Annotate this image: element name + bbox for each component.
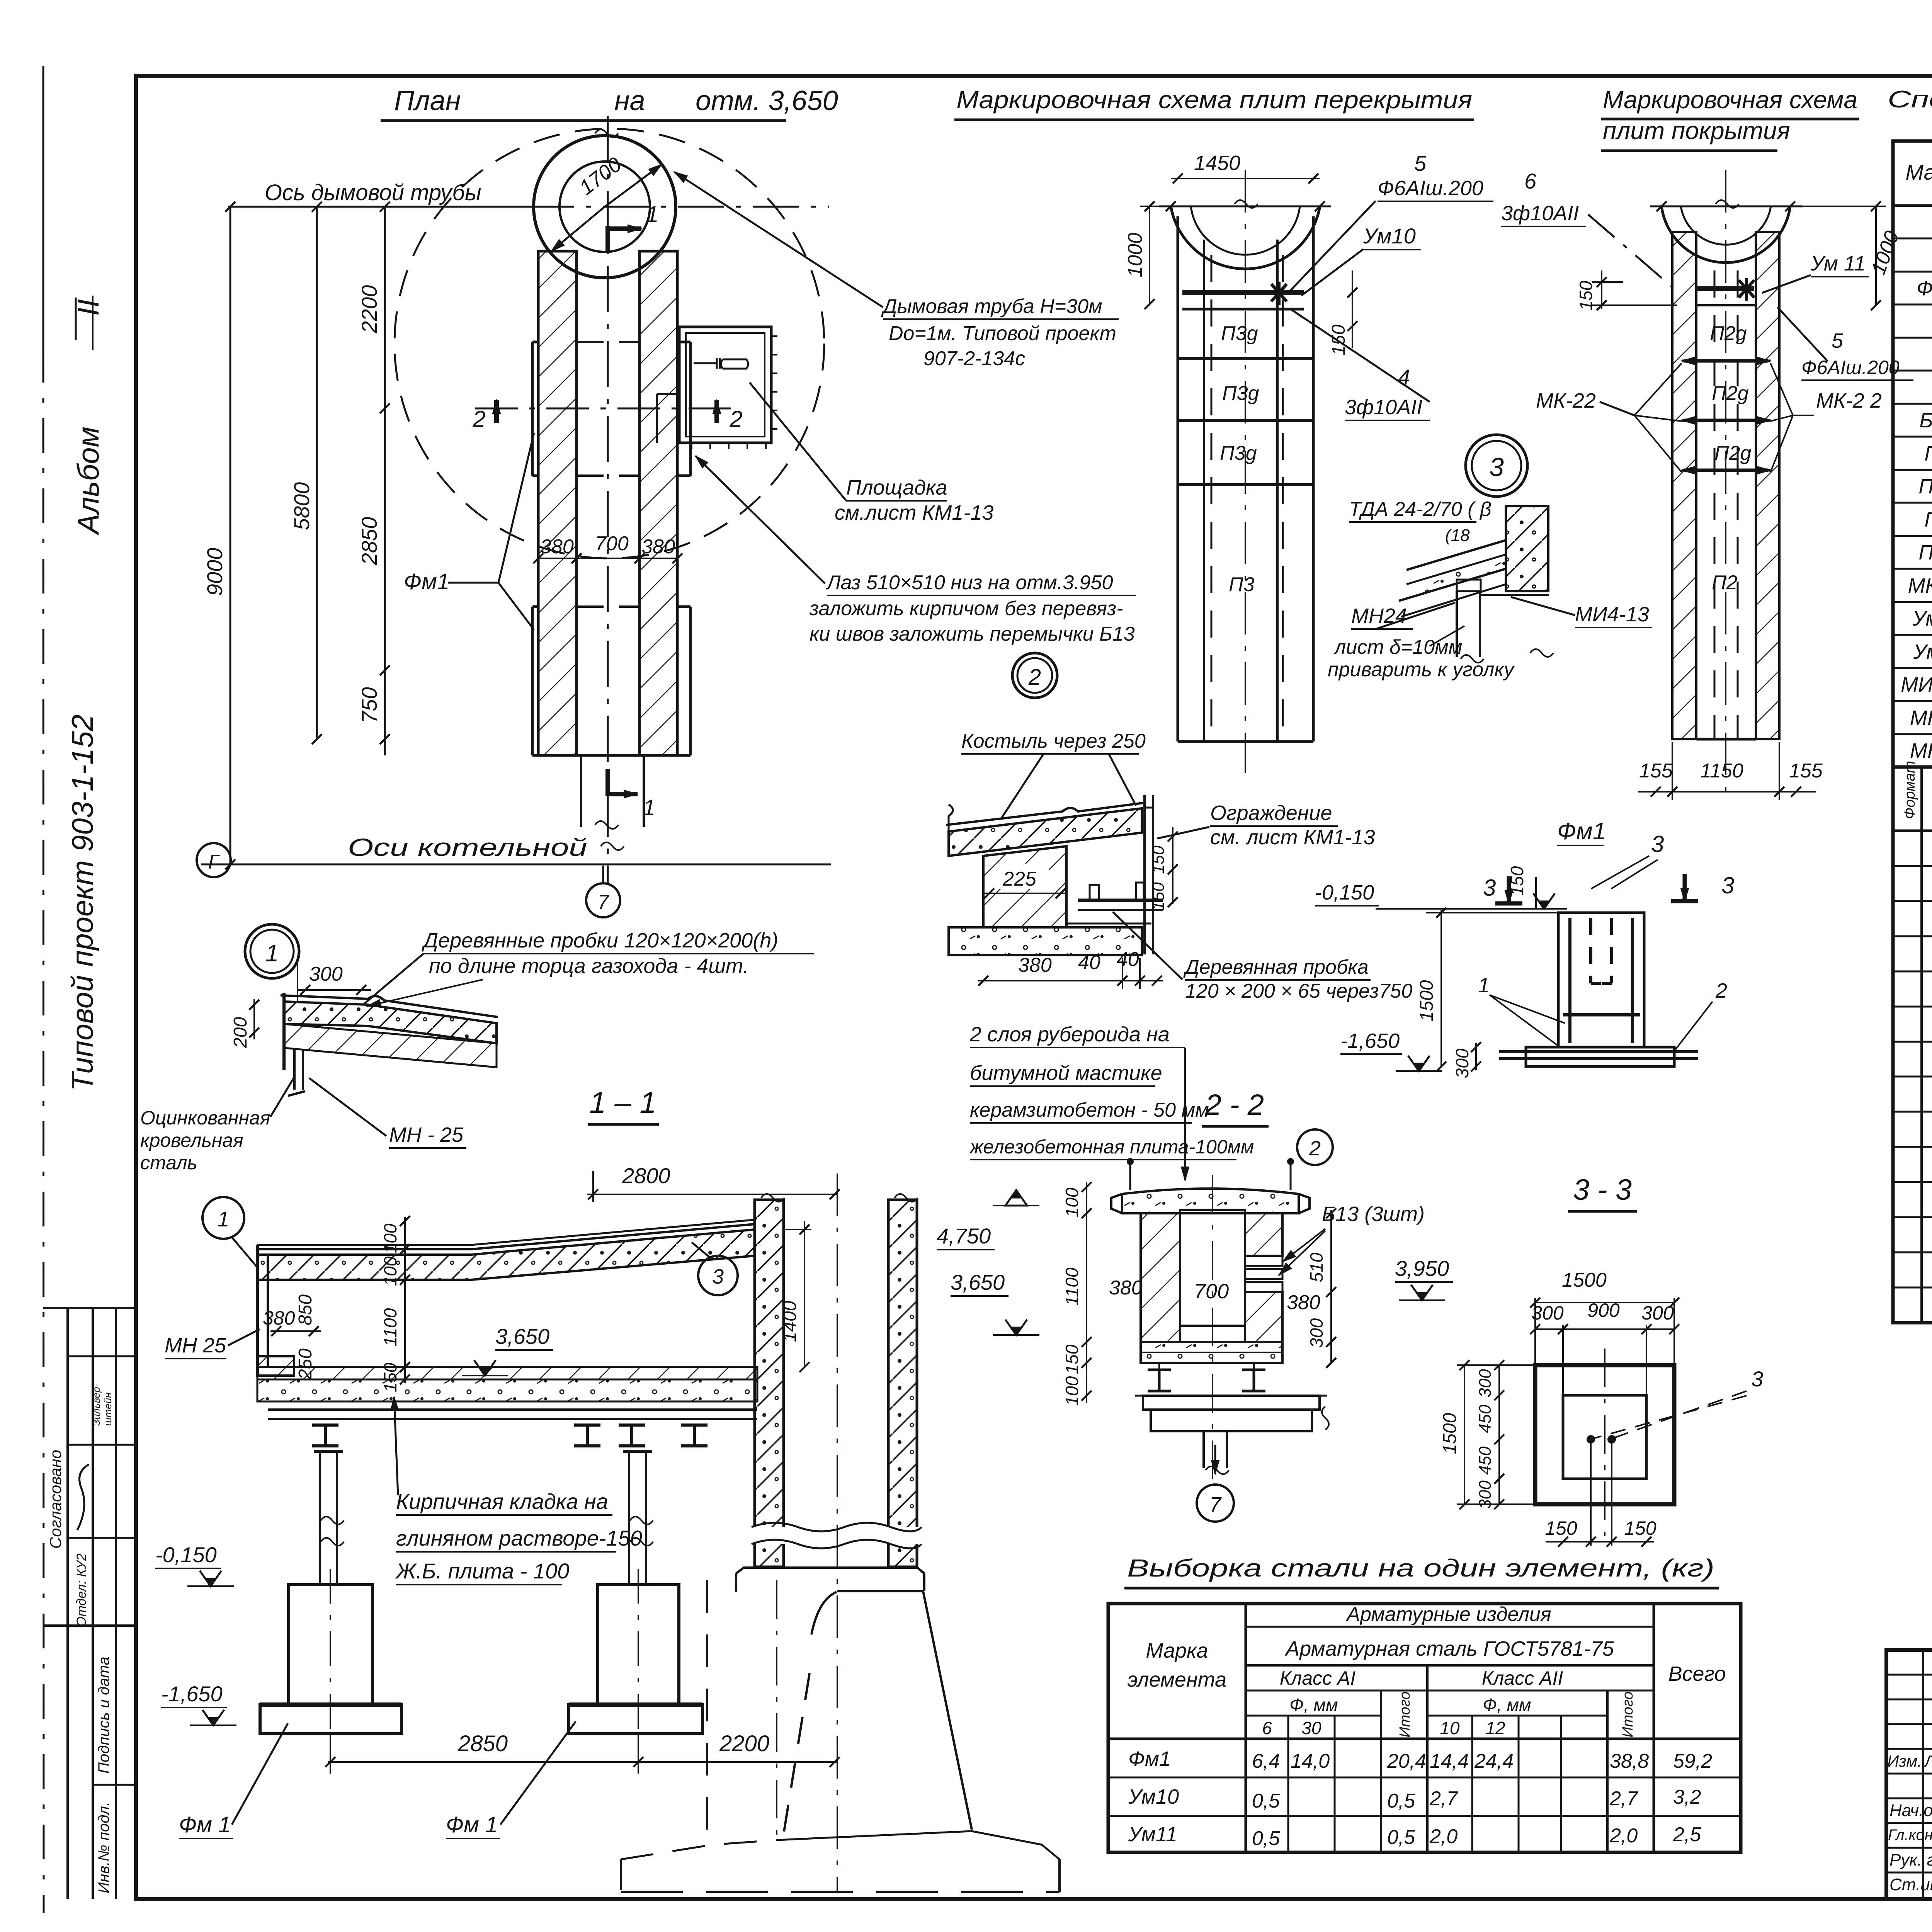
scheme2 centerline — [1725, 170, 1726, 796]
Фм1 dim 1500 — [1440, 910, 1442, 1066]
svg-text:Ум10: Ум10 — [1128, 1785, 1179, 1808]
svg-text:1500: 1500 — [1440, 1413, 1460, 1454]
svg-text:П2: П2 — [1712, 571, 1738, 594]
svg-text:глиняном растворе-150: глиняном растворе-150 — [396, 1526, 642, 1550]
detail2 dim 225 — [999, 864, 1049, 889]
2-2 I-beams below — [1148, 1369, 1171, 1371]
svg-text:2,0: 2,0 — [1609, 1825, 1638, 1847]
leader to 2-2 top — [1184, 1048, 1186, 1175]
svg-text:П2g: П2g — [1714, 442, 1752, 464]
svg-text:Г: Г — [208, 851, 221, 873]
1-1 I-beam stubs — [312, 1423, 338, 1427]
svg-text:Ж.Б. плита - 100: Ж.Б. плита - 100 — [395, 1559, 569, 1583]
svg-text:6,4: 6,4 — [1252, 1750, 1280, 1772]
scheme2 monolithic bar Ум11 — [1696, 286, 1754, 291]
1-1 beams under slab — [268, 1408, 757, 1411]
Фм1 pedestal — [1558, 913, 1644, 1047]
svg-text:2,7: 2,7 — [1429, 1787, 1458, 1810]
axis circle 7 (2-2) — [1197, 1485, 1234, 1522]
detail1 dim 200 — [253, 999, 255, 1039]
1-1 chimney wall B (section) — [888, 1200, 917, 1567]
svg-text:150: 150 — [1149, 882, 1168, 911]
svg-text:МК-2 2: МК-2 2 — [1816, 389, 1882, 412]
svg-text:П2g: П2g — [1918, 541, 1932, 564]
svg-text:Фм1: Фм1 — [1557, 818, 1606, 845]
svg-text:120 × 200 × 65 через750: 120 × 200 × 65 через750 — [1185, 980, 1412, 1002]
svg-text:лист δ=10мм: лист δ=10мм — [1333, 636, 1462, 658]
svg-text:заложить кирпичом без перевяз-: заложить кирпичом без перевяз- — [809, 597, 1123, 620]
scheme1 column walls — [1177, 216, 1179, 742]
plan dim 5800 — [316, 207, 318, 739]
svg-text:Фм1: Фм1 — [404, 569, 449, 594]
svg-text:3,950: 3,950 — [1395, 1256, 1449, 1281]
svg-text:1 – 1: 1 – 1 — [589, 1085, 656, 1119]
detail2: steel angle w/ bolts — [1078, 899, 1163, 902]
svg-text:3: 3 — [1489, 452, 1504, 482]
svg-text:Фм1: Фм1 — [1128, 1747, 1171, 1770]
svg-text:2800: 2800 — [622, 1163, 670, 1188]
svg-text:П3g: П3g — [1220, 442, 1257, 464]
scheme1 monolithic bar Ум10 — [1182, 290, 1304, 295]
node circle 2 callout — [1012, 653, 1057, 698]
node3 detail: column below — [1456, 591, 1458, 657]
svg-text:Ф6АIш.200: Ф6АIш.200 — [1801, 357, 1900, 378]
svg-text:ТДА 24-2/70 ( β: ТДА 24-2/70 ( β — [1349, 498, 1492, 520]
svg-text:1: 1 — [265, 940, 279, 967]
svg-text:Ф, мм: Ф, мм — [1289, 1695, 1338, 1715]
svg-text:приварить к уголку: приварить к уголку — [1328, 658, 1515, 681]
axis circle 7 (plan) — [586, 883, 620, 917]
1-1 duct bottom slab — [257, 1367, 757, 1379]
svg-text:Ум10: Ум10 — [1912, 607, 1932, 630]
2-2 base plates — [1143, 1396, 1320, 1410]
detail1: roof slab sloped — [284, 1002, 497, 1043]
svg-text:битумной мастике: битумной мастике — [970, 1061, 1162, 1085]
svg-text:Всего: Всего — [1668, 1662, 1726, 1685]
svg-text:1: 1 — [643, 795, 655, 820]
2-2 stub below — [1202, 1431, 1205, 1468]
detail2: bottom slab — [949, 927, 1142, 955]
svg-text:2: 2 — [1715, 979, 1727, 1002]
svg-text:Инв.№ подл.: Инв.№ подл. — [95, 1802, 112, 1893]
svg-text:850: 850 — [295, 1294, 316, 1325]
svg-text:100: 100 — [380, 1223, 400, 1253]
svg-text:Зона: Зона — [1930, 782, 1932, 815]
svg-text:0,5: 0,5 — [1387, 1826, 1415, 1849]
svg-text:3: 3 — [1651, 831, 1664, 857]
svg-text:40: 40 — [1078, 951, 1100, 974]
svg-text:250: 250 — [295, 1349, 316, 1380]
svg-text:Деревянные пробки 120×120×200(: Деревянные пробки 120×120×200(h) — [422, 929, 778, 952]
plan vertical centerline — [607, 116, 609, 883]
svg-text:2: 2 — [472, 406, 485, 432]
svg-text:ки швов заложить перемычки Б13: ки швов заложить перемычки Б13 — [810, 623, 1135, 645]
svg-text:1500: 1500 — [1417, 980, 1437, 1021]
vyborka table frame — [1108, 1604, 1741, 1852]
1-1 dim 1400 — [804, 1221, 805, 1367]
svg-text:Типовой проект 903-1-152: Типовой проект 903-1-152 — [65, 714, 99, 1091]
svg-text:П3g: П3g — [1918, 475, 1932, 498]
svg-text:3: 3 — [1751, 1367, 1763, 1391]
svg-text:Dо=1м. Типовой проект: Dо=1м. Типовой проект — [889, 322, 1116, 345]
3-3 centerlines — [1604, 1349, 1605, 1542]
svg-text:Кирпичная кладка на: Кирпичная кладка на — [396, 1489, 608, 1514]
svg-text:Деревянная пробка: Деревянная пробка — [1183, 956, 1369, 978]
svg-text:МИ4-13: МИ4-13 — [1901, 673, 1932, 696]
svg-text:30: 30 — [1301, 1718, 1321, 1738]
svg-text:510: 510 — [1306, 1252, 1327, 1282]
svg-text:5800: 5800 — [289, 482, 314, 531]
svg-text:П3: П3 — [1229, 573, 1255, 596]
svg-text:300: 300 — [1476, 1369, 1495, 1398]
title block left sign table — [1922, 1650, 1924, 1899]
scheme1 dim 1000 — [1149, 206, 1150, 304]
spec rows part1 — [1893, 238, 1932, 240]
svg-text:Оси котельной: Оси котельной — [348, 833, 587, 861]
svg-text:МН24: МН24 — [1351, 604, 1407, 628]
title block frame — [1886, 1650, 1932, 1899]
detail1: left closure and МН-25 strip — [282, 993, 286, 1070]
svg-text:-1,650: -1,650 — [1340, 1029, 1400, 1053]
1-1 footing left — [260, 1705, 401, 1734]
svg-text:Фм 1: Фм 1 — [446, 1812, 498, 1837]
svg-text:0,5: 0,5 — [1252, 1790, 1280, 1812]
svg-text:3,2: 3,2 — [1673, 1786, 1701, 1808]
svg-text:12: 12 — [1485, 1718, 1505, 1738]
svg-text:2,0: 2,0 — [1429, 1825, 1458, 1848]
plan: flue below walls — [580, 755, 582, 827]
spec second header Формат Зона Поз — [1893, 830, 1932, 832]
3-3 inner square — [1563, 1395, 1646, 1479]
svg-text:Итого: Итого — [1397, 1692, 1413, 1738]
svg-text:38,8: 38,8 — [1610, 1750, 1649, 1772]
svg-text:7: 7 — [598, 891, 610, 913]
svg-text:Ум10: Ум10 — [1363, 224, 1416, 248]
1-1 steel post right — [628, 1451, 630, 1585]
svg-text:450: 450 — [1476, 1446, 1495, 1475]
1-1 chimney wall A (section) — [755, 1200, 784, 1567]
svg-text:П3g: П3g — [1221, 322, 1258, 345]
node circle 3 callout — [1466, 435, 1527, 497]
svg-text:3,650: 3,650 — [495, 1324, 549, 1349]
svg-text:100: 100 — [1062, 1376, 1082, 1406]
svg-text:300: 300 — [1531, 1302, 1564, 1324]
svg-text:плит покрытия: плит покрытия — [1603, 117, 1790, 145]
svg-text:Гл.констр: Гл.констр — [1888, 1827, 1932, 1844]
svg-text:Фм1: Фм1 — [1917, 277, 1932, 300]
svg-text:Ум 11: Ум 11 — [1810, 252, 1866, 275]
3-3 dims 300 450 450 300 left — [1498, 1365, 1500, 1504]
sheet edge left — [43, 66, 44, 348]
svg-text:Ум11: Ум11 — [1128, 1823, 1177, 1846]
svg-text:150: 150 — [380, 1362, 400, 1392]
svg-text:0,5: 0,5 — [1387, 1790, 1415, 1812]
svg-text:150: 150 — [1624, 1517, 1656, 1539]
svg-text:2200: 2200 — [357, 285, 381, 334]
svg-text:59,2: 59,2 — [1673, 1750, 1712, 1772]
svg-text:Площадка: Площадка — [846, 476, 947, 499]
svg-text:Оцинкованная: Оцинкованная — [140, 1107, 270, 1129]
svg-text:П3: П3 — [1924, 442, 1932, 465]
3-3 outer square — [1535, 1365, 1674, 1504]
scheme2 bottom dims 155 1150 155 — [1638, 791, 1816, 793]
svg-text:24,4: 24,4 — [1474, 1750, 1514, 1772]
svg-text:2850: 2850 — [457, 1731, 508, 1756]
svg-text:150: 150 — [1507, 866, 1527, 896]
svg-text:200: 200 — [230, 1017, 251, 1048]
detail2: wall block below — [983, 846, 1066, 927]
spec rows part2 — [1893, 865, 1932, 867]
svg-text:МН24: МН24 — [1910, 706, 1932, 730]
svg-text:сталь: сталь — [140, 1152, 197, 1173]
svg-text:Изм.: Изм. — [1887, 1752, 1922, 1770]
svg-text:Б13: Б13 — [1919, 409, 1932, 432]
Фм1 base rebars — [1499, 1050, 1698, 1053]
svg-text:7: 7 — [1209, 1493, 1222, 1516]
svg-text:1100: 1100 — [380, 1308, 400, 1346]
svg-text:155: 155 — [1789, 760, 1823, 782]
node circle 2 (section ref) — [1297, 1129, 1333, 1165]
3-3 center bolts — [1587, 1436, 1594, 1443]
svg-text:2: 2 — [1309, 1137, 1321, 1160]
svg-text:Лаз 510×510 низ на отм.3.950: Лаз 510×510 низ на отм.3.950 — [826, 571, 1113, 594]
plan: chimney inner circle — [560, 162, 650, 252]
1-1 chimney centerline — [837, 1173, 838, 1893]
svg-text:Подпись и дата: Подпись и дата — [95, 1656, 112, 1774]
svg-text:300: 300 — [1641, 1302, 1674, 1324]
scheme2 dim 150 — [1601, 270, 1602, 309]
svg-text:3ф10АII: 3ф10АII — [1345, 396, 1422, 419]
svg-text:20,4: 20,4 — [1387, 1750, 1426, 1772]
scheme2 top arc — [1662, 206, 1790, 263]
2-2 left wall hatched — [1141, 1213, 1180, 1342]
node circle 3 (section ref) — [698, 1256, 738, 1295]
scheme2 dim 1000 — [1875, 206, 1877, 305]
svg-text:2200: 2200 — [719, 1731, 769, 1756]
2-2 bottom slab — [1141, 1342, 1282, 1363]
svg-text:П3g: П3g — [1222, 382, 1259, 405]
svg-text:5: 5 — [1414, 151, 1427, 175]
svg-text:Рук. гр.: Рук. гр. — [1889, 1850, 1932, 1869]
svg-text:Класс АI: Класс АI — [1280, 1667, 1356, 1689]
1-1 steel post left — [319, 1451, 321, 1585]
svg-text:-1,650: -1,650 — [161, 1682, 223, 1706]
svg-text:3,650: 3,650 — [951, 1270, 1005, 1294]
svg-text:1: 1 — [1478, 974, 1490, 997]
svg-text:100: 100 — [1062, 1187, 1082, 1217]
scheme1 top arc (chimney) — [1171, 206, 1320, 269]
svg-text:керамзитобетон - 50 мм: керамзитобетон - 50 мм — [970, 1099, 1209, 1121]
svg-text:-0,150: -0,150 — [155, 1543, 217, 1567]
scheme2 column walls (hatched) — [1672, 232, 1696, 739]
svg-text:450: 450 — [1476, 1405, 1495, 1433]
svg-text:150: 150 — [1149, 845, 1168, 874]
svg-text:2,5: 2,5 — [1673, 1823, 1701, 1846]
1-1 pedestal centerlines — [330, 1569, 331, 1750]
node3 detail sketch: sloped roof layers — [1406, 540, 1506, 570]
1-1 duct top slab — [257, 1224, 755, 1249]
svg-text:150: 150 — [1328, 325, 1349, 355]
svg-text:Б13 (3шт): Б13 (3шт) — [1322, 1202, 1425, 1226]
detail1: lower slab — [284, 1024, 497, 1067]
svg-text:5: 5 — [1832, 329, 1844, 352]
1-1 pedestal left — [289, 1585, 372, 1705]
svg-text:Выборка стали на один элемен: Выборка стали на один элемент, (кг) — [1127, 1554, 1714, 1582]
1-1 dims stack 100 100 1100 150 — [404, 1217, 406, 1383]
1-1 pedestal right — [598, 1585, 679, 1705]
2-2 anchor pins — [1129, 1164, 1131, 1190]
svg-text:6: 6 — [1262, 1718, 1272, 1738]
svg-text:900: 900 — [1587, 1299, 1620, 1321]
svg-text:Альбом: Альбом — [71, 427, 105, 536]
scheme2 МК-22 connector rows — [1684, 359, 1768, 363]
svg-text:2: 2 — [729, 406, 742, 432]
svg-text:МН 25: МН 25 — [165, 1334, 226, 1357]
svg-text:380: 380 — [1109, 1277, 1143, 1299]
plan dims 2200 2850 750 — [384, 207, 386, 755]
svg-text:1400: 1400 — [780, 1301, 800, 1342]
Фм1 rebar horizontal — [1563, 1013, 1640, 1017]
plan: platform square — [679, 327, 771, 443]
svg-text:Отдел: КУ2: Отдел: КУ2 — [74, 1553, 89, 1627]
svg-text:225: 225 — [1002, 868, 1037, 890]
svg-text:300: 300 — [1452, 1048, 1472, 1078]
svg-text:МН - 25: МН - 25 — [389, 1123, 464, 1146]
node3 detail sketch: wall — [1506, 506, 1548, 591]
plan: diameter 1700 arrow — [551, 207, 605, 251]
svg-text:3 - 3: 3 - 3 — [1573, 1173, 1632, 1206]
svg-text:2: 2 — [1028, 665, 1041, 690]
svg-text:П2g: П2g — [1712, 382, 1749, 405]
2-2 centerline — [1212, 1175, 1213, 1484]
spec table frame — [1893, 141, 1932, 1323]
plan: foundation dashed circle — [395, 129, 824, 558]
svg-text:1000: 1000 — [1124, 233, 1146, 277]
svg-text:Согласовано: Согласовано — [46, 1450, 65, 1549]
svg-text:Марка: Марка — [1905, 160, 1932, 184]
plan: chimney flue right wall (hatched) — [639, 251, 677, 755]
detail2: sloped roof slab — [949, 808, 1142, 856]
plan: upper pilaster block — [531, 342, 534, 476]
svg-text:отм. 3,650: отм. 3,650 — [696, 85, 838, 116]
3-3 dim 1500 left — [1464, 1365, 1465, 1504]
svg-text:14,4: 14,4 — [1430, 1750, 1469, 1772]
svg-text:2850: 2850 — [357, 517, 381, 566]
svg-text:см.лист КМ1-13: см.лист КМ1-13 — [835, 501, 993, 524]
svg-text:Фм 1: Фм 1 — [179, 1812, 231, 1837]
svg-text:1450: 1450 — [1194, 151, 1240, 175]
detail2 dims 150 150 vertical — [1172, 827, 1173, 904]
svg-text:Костыль через 250: Костыль через 250 — [961, 730, 1146, 752]
svg-text:Лист: Лист — [1923, 1752, 1932, 1770]
svg-text:380: 380 — [263, 1307, 295, 1329]
svg-text:380: 380 — [641, 536, 675, 558]
node3 detail: angle support — [1457, 580, 1481, 591]
svg-text:МН25: МН25 — [1910, 739, 1932, 762]
Фм1 base — [1526, 1047, 1674, 1066]
2-2 dims left 100 1100 150 100 — [1086, 1182, 1087, 1403]
svg-text:1500: 1500 — [1562, 1269, 1607, 1291]
svg-text:907-2-134с: 907-2-134с — [923, 347, 1025, 370]
node circle 1 callout — [245, 924, 299, 978]
1-1 duct left end — [256, 1245, 259, 1376]
svg-text:Ф, мм: Ф, мм — [1483, 1695, 1531, 1715]
svg-text:-0,150: -0,150 — [1315, 881, 1374, 904]
svg-text:штейн: штейн — [102, 1393, 114, 1426]
svg-text:(18: (18 — [1445, 526, 1470, 545]
svg-text:100: 100 — [380, 1256, 400, 1286]
axis circle Г — [197, 843, 231, 877]
svg-text:9000: 9000 — [202, 548, 227, 596]
svg-text:380: 380 — [1018, 954, 1052, 976]
svg-text:Ограждение: Ограждение — [1210, 801, 1332, 825]
svg-text:Арматурная сталь ГОСТ5781-75: Арматурная сталь ГОСТ5781-75 — [1284, 1637, 1614, 1660]
node circle 1 (section ref) — [202, 1197, 244, 1239]
svg-text:Нач.отд.: Нач.отд. — [1889, 1801, 1932, 1820]
plan: chimney flue left wall (hatched) — [538, 251, 577, 755]
plan dims 380 700 380 — [538, 558, 677, 559]
svg-text:700: 700 — [1194, 1280, 1229, 1303]
svg-text:Класс АII: Класс АII — [1482, 1667, 1563, 1689]
svg-text:2 слоя рубероида на: 2 слоя рубероида на — [969, 1023, 1170, 1046]
svg-text:Ф6АIш.200: Ф6АIш.200 — [1378, 177, 1483, 200]
svg-text:П2g: П2g — [1710, 322, 1747, 345]
plan: section cut 2-2 line — [475, 408, 742, 410]
svg-text:МК-22: МК-22 — [1908, 574, 1932, 597]
sidebar signature — [77, 1464, 89, 1530]
svg-text:МК-22: МК-22 — [1536, 389, 1596, 412]
svg-text:Зильвер-: Зильвер- — [90, 1383, 102, 1426]
2-2 top plate — [1122, 1189, 1299, 1213]
svg-text:Спецификация элементов к: Спецификация элементов к маркировочным с… — [1888, 86, 1932, 113]
svg-text:Ум11: Ум11 — [1913, 640, 1932, 663]
svg-text:155: 155 — [1639, 760, 1673, 782]
spec header — [1893, 204, 1932, 207]
svg-text:1100: 1100 — [1062, 1267, 1082, 1306]
1-1 wall break band — [752, 1527, 920, 1544]
plan: flue interior dashed lines — [577, 341, 639, 343]
svg-text:кровельная: кровельная — [140, 1129, 243, 1151]
plan axis: Ось дымовой трубы horizontal centerline — [228, 206, 829, 208]
svg-text:0,5: 0,5 — [1252, 1827, 1280, 1850]
plan: section mark 1 bottom — [605, 769, 610, 796]
2-2 right wall upper + lintels Б13 — [1245, 1213, 1282, 1256]
Фм1 rebar verticals — [1568, 918, 1571, 1043]
svg-text:300: 300 — [309, 963, 343, 985]
svg-text:железобетонная плита-100мм: железобетонная плита-100мм — [969, 1136, 1254, 1158]
1-1 footing right — [569, 1705, 702, 1734]
svg-text:3ф10АII: 3ф10АII — [1501, 202, 1579, 225]
detail2: guard post — [1143, 795, 1146, 954]
svg-text:1: 1 — [646, 201, 658, 227]
svg-text:1150: 1150 — [1700, 760, 1743, 782]
svg-text:см. лист КМ1-13: см. лист КМ1-13 — [1210, 826, 1375, 849]
svg-text:на: на — [614, 85, 645, 116]
svg-text:элемента: элемента — [1128, 1668, 1226, 1691]
svg-text:План: План — [394, 85, 461, 116]
svg-text:6: 6 — [1524, 169, 1537, 193]
svg-text:3: 3 — [1483, 875, 1496, 901]
svg-text:380: 380 — [1287, 1291, 1320, 1314]
svg-text:Арматурные изделия: Арматурные изделия — [1345, 1603, 1551, 1626]
svg-text:10: 10 — [1440, 1718, 1460, 1738]
svg-text:300: 300 — [1306, 1318, 1327, 1348]
svg-text:3: 3 — [712, 1265, 724, 1288]
svg-text:Формат: Формат — [1902, 761, 1918, 819]
svg-text:Ст.инж.: Ст.инж. — [1889, 1875, 1932, 1894]
svg-text:750: 750 — [357, 687, 381, 723]
svg-text:МИ4-13: МИ4-13 — [1575, 603, 1649, 626]
